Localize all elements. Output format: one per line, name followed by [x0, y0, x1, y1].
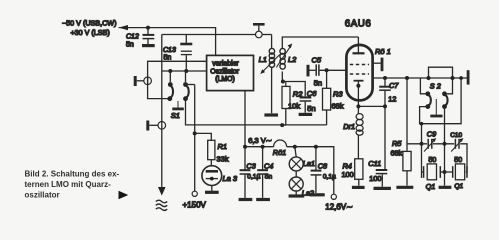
wire S2 upper loop rectangle [429, 67, 453, 78]
node S2 loop left foot [427, 76, 431, 80]
tube screen lead to bar [372, 62, 381, 64]
svg-text:Rö1: Rö1 [273, 148, 286, 157]
capacitor C3 [240, 147, 251, 198]
wire L2 bottom node [281, 72, 283, 82]
svg-text:68k: 68k [391, 148, 403, 157]
node heater C8 [314, 145, 318, 149]
ground C3 [239, 198, 253, 201]
trimmer C10 [451, 138, 463, 152]
terminal bar C5 input [307, 65, 310, 77]
wire RF top line to feedthrough [162, 34, 256, 36]
svg-text:C13: C13 [163, 47, 176, 54]
node C7 top [383, 76, 387, 80]
svg-text:C12: C12 [126, 33, 139, 40]
svg-text:50: 50 [454, 157, 462, 164]
wire heater line left [245, 146, 274, 148]
svg-text:6,3 V∼: 6,3 V∼ [248, 136, 272, 145]
switch S2 pole a [420, 78, 430, 109]
wire J1 to S1 lower contact [148, 78, 168, 99]
svg-text:Bild 2. Schaltung des ex-: Bild 2. Schaltung des ex- [25, 170, 120, 179]
variometer arrow L1 [260, 55, 280, 75]
ground L1 [264, 113, 278, 116]
ground La3 [205, 191, 219, 194]
svg-text:5n: 5n [314, 78, 322, 87]
wire R3 stub top [326, 70, 328, 88]
ground C8 [310, 193, 325, 196]
svg-text:R4: R4 [343, 161, 352, 170]
wire bar to C5 [310, 69, 316, 71]
node crystal mid [443, 170, 447, 174]
terminal bar right output [467, 70, 470, 84]
svg-text:La 3: La 3 [223, 174, 238, 183]
box LMO oscillator [207, 55, 254, 90]
node heater C3 [243, 145, 247, 149]
resistor R1 [208, 140, 215, 159]
svg-text:R3: R3 [333, 89, 343, 98]
node U loop top [459, 76, 463, 80]
terminal +150V circle [192, 191, 197, 196]
svg-text:C4: C4 [264, 161, 273, 170]
svg-text:S1: S1 [171, 111, 180, 120]
wire R5 to ground [406, 171, 408, 186]
svg-text:5n: 5n [307, 104, 315, 113]
svg-text:S 2: S 2 [430, 81, 441, 90]
capacitor C8 [311, 147, 322, 193]
svg-text:+150V: +150V [183, 201, 207, 210]
svg-text:100: 100 [369, 174, 381, 183]
ground C6 [299, 113, 313, 116]
node trimmer mid [443, 142, 447, 146]
svg-text:C9: C9 [427, 130, 436, 139]
tube grid g1 dashes [350, 73, 369, 75]
capacitor C4 [257, 147, 268, 198]
ground La1 La2 [289, 194, 305, 197]
node bias R2 [280, 123, 284, 127]
terminal bar screen [381, 58, 384, 72]
resistor R2 [282, 86, 290, 108]
node supply junction [146, 26, 150, 30]
wire crystal Q1a lead [421, 124, 423, 166]
tube cathode [354, 81, 364, 107]
heater Roe1 bump [274, 140, 287, 147]
svg-text:C3: C3 [246, 161, 255, 170]
svg-text:(LMO): (LMO) [215, 76, 235, 83]
svg-text:Dr1: Dr1 [343, 122, 355, 131]
wire trimmer line [407, 144, 467, 172]
wire C7 node down to C11 [384, 106, 386, 169]
ground C4 [256, 198, 270, 201]
svg-text:C10: C10 [450, 132, 462, 139]
choke Dr1 [356, 106, 363, 158]
svg-text:100: 100 [342, 170, 354, 179]
wire S1b top to +150V vertical [186, 84, 195, 86]
svg-text:R5: R5 [392, 139, 402, 148]
svg-text:0,1µ: 0,1µ [323, 174, 336, 181]
switch S2 pole b [442, 78, 452, 109]
svg-text:R1: R1 [218, 142, 228, 151]
lamp La2 [289, 171, 303, 195]
svg-text:Q1: Q1 [454, 183, 463, 190]
svg-text:12,6V∼: 12,6V∼ [325, 202, 353, 211]
wire J1 to LMO upper pin [148, 61, 207, 84]
node C5 R3 [325, 68, 329, 72]
wire R2 to bias line [282, 109, 286, 126]
wire R3 to bias line [326, 110, 328, 125]
svg-text:−50 V (USB,CW): −50 V (USB,CW) [62, 18, 117, 27]
wire LMO output down to heater node [244, 91, 246, 147]
svg-text:33k: 33k [217, 154, 229, 163]
svg-text:C7: C7 [389, 81, 399, 90]
svg-text:oszillator: oszillator [25, 190, 60, 199]
wire anode top to L2 [282, 37, 358, 48]
capacitor C13 [180, 35, 192, 71]
node heater La1 [293, 145, 297, 149]
node cathode [356, 104, 360, 108]
terminal J1 input circle [144, 77, 152, 85]
wire cathode to C7 column [358, 105, 385, 107]
svg-text:Q1: Q1 [426, 182, 436, 191]
resistor R4 [355, 159, 363, 180]
svg-text:C5: C5 [312, 56, 322, 65]
capacitor C12 [143, 29, 155, 44]
node crystal lead tee [420, 122, 424, 126]
node rail S1b C13 [184, 69, 188, 73]
node R1 branch [193, 131, 197, 135]
node C7 bottom [383, 104, 387, 108]
lamp La1 [289, 147, 303, 171]
wire S1b bottom to bias line [186, 99, 327, 125]
wire R4 to ground [358, 179, 360, 185]
wire to other unit arrow [158, 187, 166, 196]
svg-text:68k: 68k [332, 101, 344, 110]
node R5 top [405, 76, 409, 80]
wire R5 vertical [406, 78, 408, 151]
node L2 R2 C6 [281, 80, 285, 84]
switch S2 actuator bar [430, 99, 442, 116]
tube Roe1 envelope [346, 45, 372, 101]
inductor L2 [280, 48, 285, 69]
inductor L1 [269, 48, 274, 67]
svg-text:L1: L1 [259, 55, 267, 64]
caption arrow [119, 191, 129, 199]
wire node to C6 corner [283, 82, 305, 97]
svg-text:Rö 1: Rö 1 [375, 47, 391, 56]
svg-text:La1: La1 [303, 159, 315, 168]
stabilizer tube La3 [202, 166, 222, 191]
terminal J1 plug bar [135, 76, 143, 86]
tube anode [353, 37, 365, 53]
feedthrough terminal with chassis bar [253, 24, 272, 38]
resistor R5 [403, 151, 411, 170]
ground crystal mid [439, 186, 452, 189]
trimmer C9 [424, 138, 436, 152]
wire feedthrough to L1 [271, 35, 273, 49]
ground R5 [396, 186, 413, 189]
wire S2a bottom return loop [420, 78, 462, 124]
wire supply top line with left arrow [119, 25, 216, 55]
wire heater line right [287, 147, 334, 195]
wire +150V rail to LMO [162, 70, 207, 72]
wire L1 to ground [271, 67, 273, 114]
ground C11 [374, 187, 391, 190]
terminal 12.6V circle [331, 194, 336, 199]
svg-text:variabler: variabler [212, 61, 239, 68]
svg-text:5n: 5n [164, 55, 172, 62]
capacitor C11 [376, 170, 388, 187]
resistor R3 [323, 88, 331, 110]
variometer arrow L2 [276, 44, 292, 68]
svg-text:C6: C6 [307, 89, 317, 98]
ground R4 [352, 186, 365, 189]
svg-text:ternen LMO mit Quarz-: ternen LMO mit Quarz- [25, 180, 112, 189]
wire C5 to grid [320, 69, 348, 71]
capacitor C5 [316, 64, 319, 75]
crystal Q1a [422, 164, 445, 180]
node S2 loop right foot [451, 76, 455, 80]
svg-text:+30 V (LSB): +30 V (LSB) [70, 28, 109, 37]
wire R2 stub [285, 82, 287, 87]
wire node to R1 [195, 133, 212, 140]
svg-text:L2: L2 [288, 55, 297, 64]
svg-text:12: 12 [388, 95, 396, 104]
chassis waves symbol [156, 200, 167, 210]
wire +150V vertical [194, 85, 196, 192]
svg-text:10k: 10k [288, 101, 300, 110]
node heater C4 [261, 145, 265, 149]
switch S1 actuator bar [172, 101, 184, 109]
capacitor C6 [300, 97, 312, 112]
svg-text:Oszillator: Oszillator [210, 68, 239, 75]
tube grid g2 dashes [350, 64, 369, 66]
node crystal line Ca [420, 142, 424, 146]
wire left vertical bus [161, 35, 163, 189]
svg-text:50: 50 [429, 157, 437, 164]
wire g3 lead to S2 line [372, 77, 467, 79]
caption Bild 2 [25, 170, 129, 200]
ground C12 [142, 44, 155, 47]
capacitor C7 [379, 78, 391, 107]
wire R1 to La3 [210, 160, 212, 166]
svg-text:5n: 5n [265, 174, 273, 181]
terminal J2 output circle [158, 122, 166, 130]
wire S2b bottom down [444, 107, 446, 186]
svg-text:5n: 5n [126, 41, 134, 48]
switch S1 pole b [183, 71, 189, 101]
svg-text:C11: C11 [368, 159, 381, 168]
switch S1 pole a [167, 71, 173, 101]
crystal Q1b [445, 164, 468, 180]
svg-text:C8: C8 [318, 161, 328, 170]
svg-text:6AU6: 6AU6 [345, 19, 372, 30]
terminal J2 plug bar [148, 121, 158, 131]
node rail S1a [168, 69, 172, 73]
